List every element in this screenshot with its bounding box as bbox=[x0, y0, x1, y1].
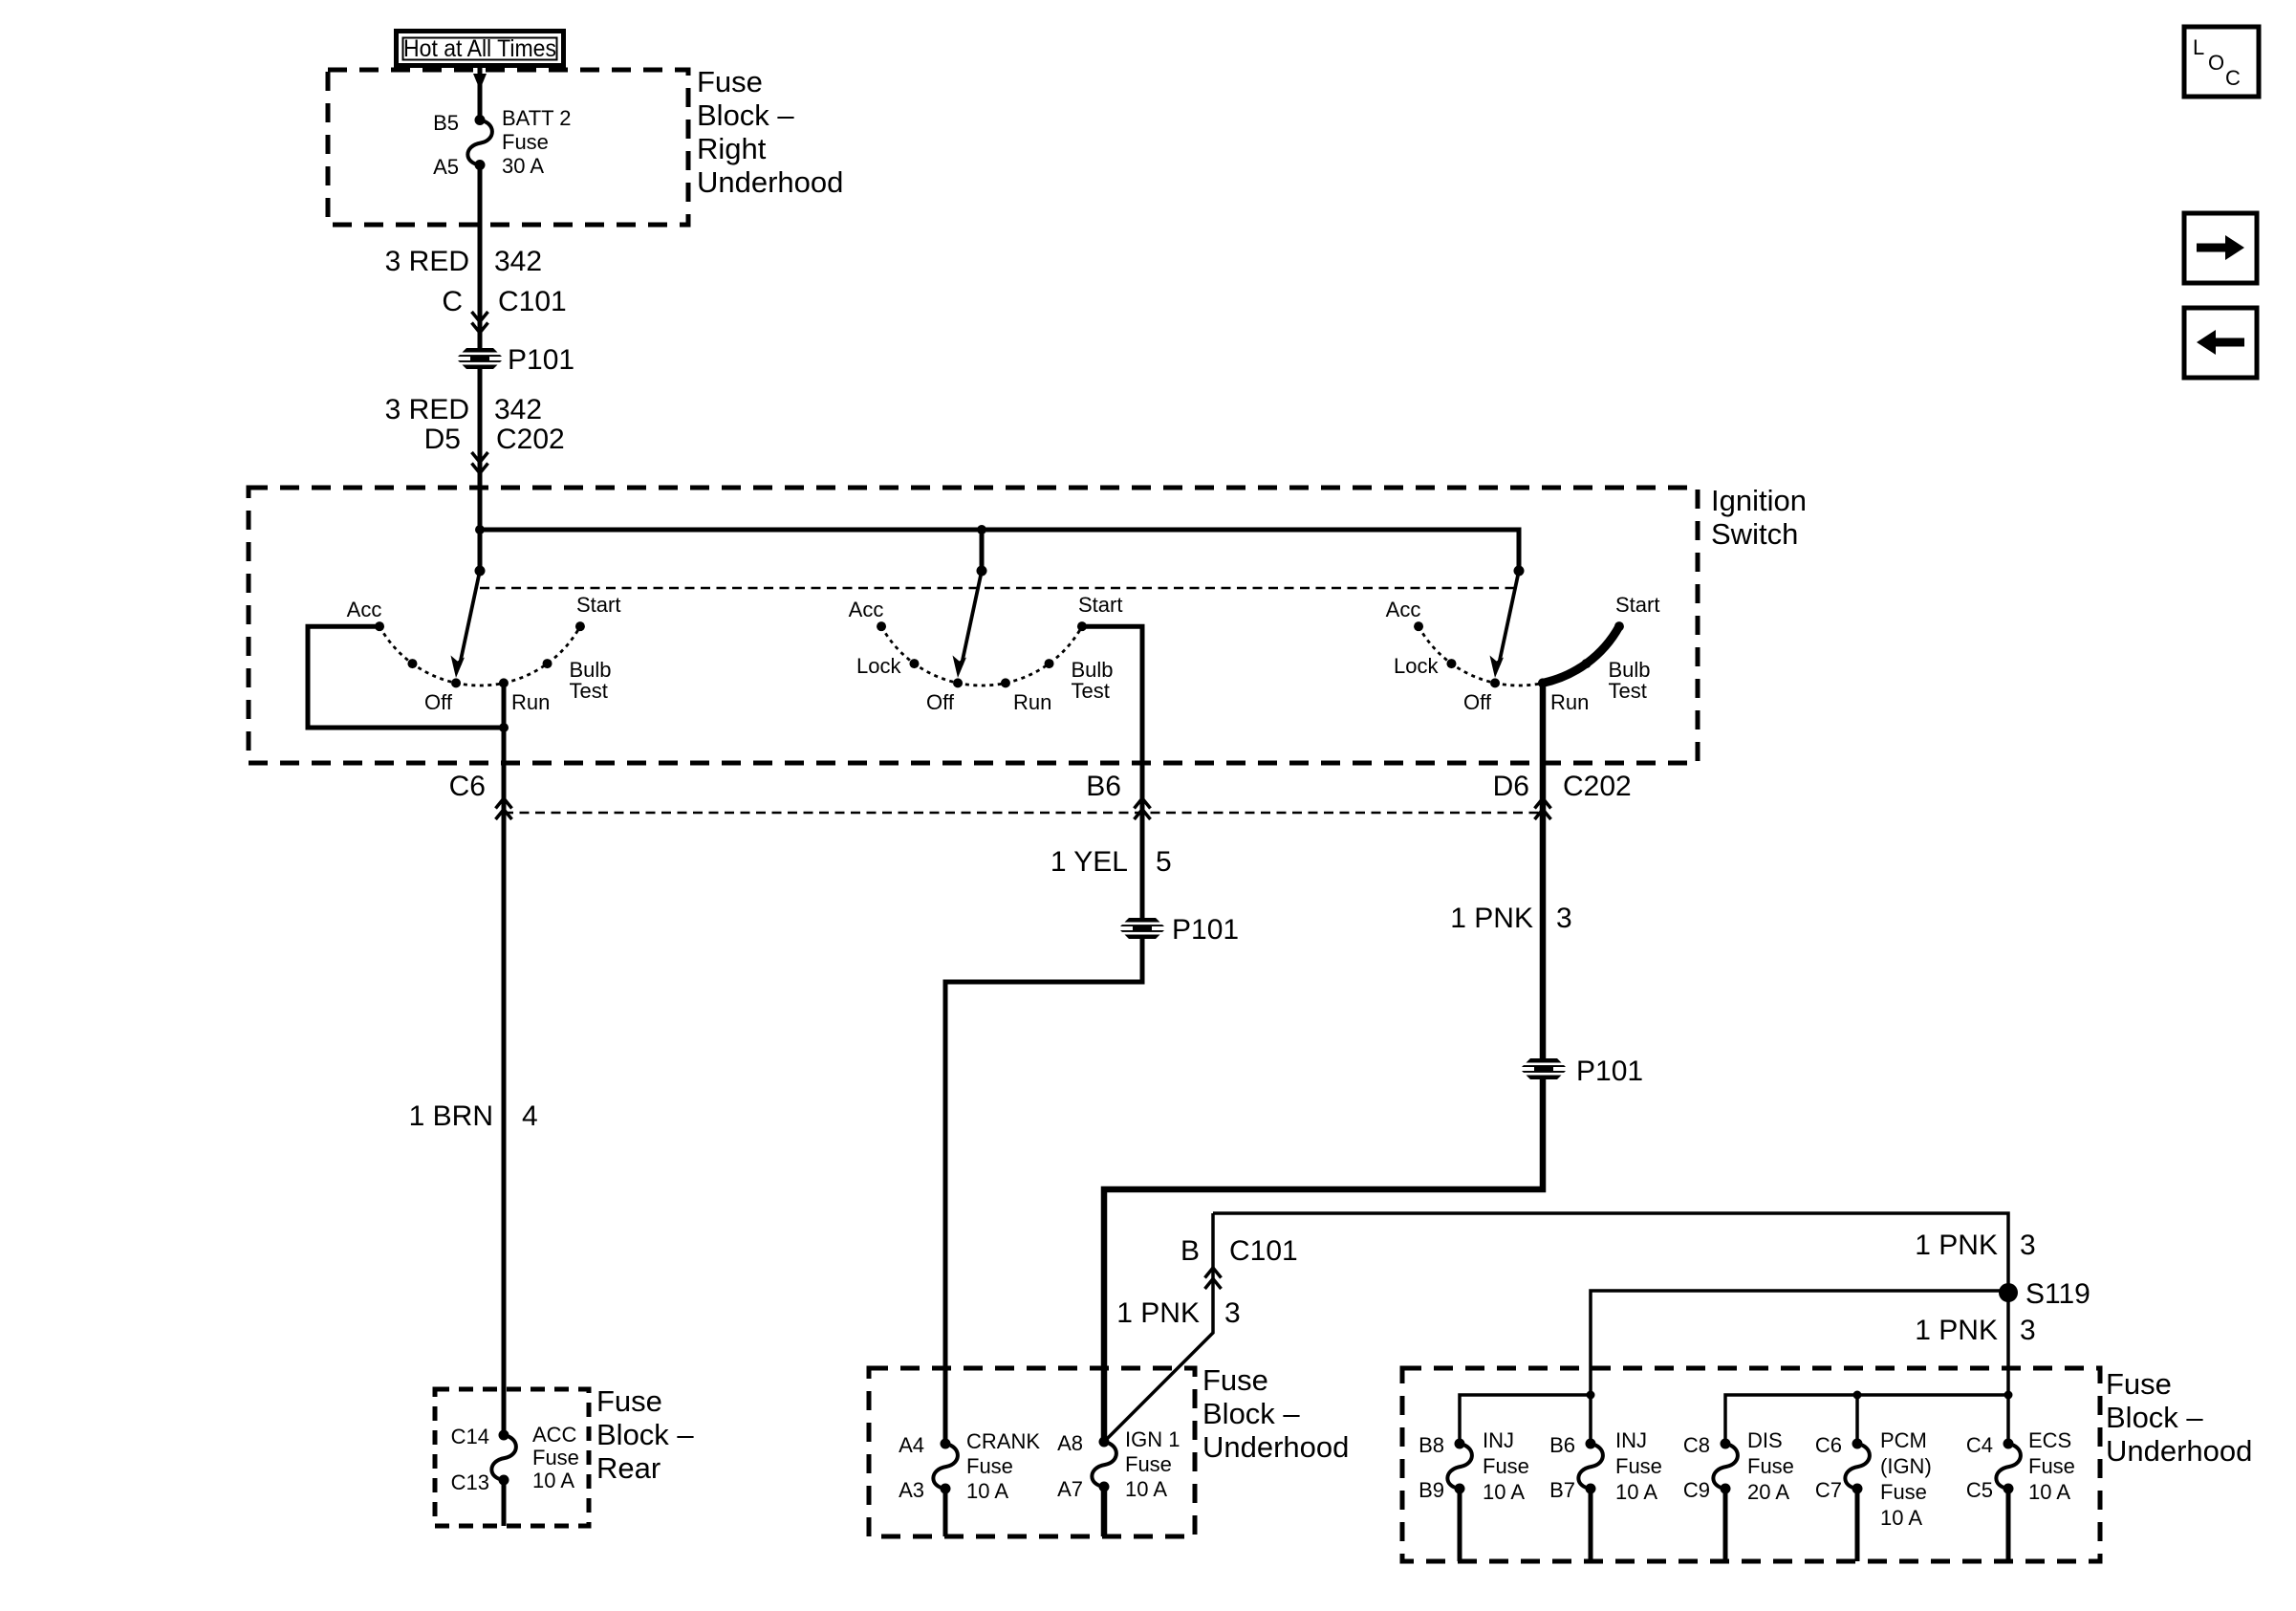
pin C7 label bbox=[1815, 1478, 1842, 1502]
svg-text:Fuse: Fuse bbox=[596, 1384, 662, 1418]
switch section labels at x=1027 bbox=[849, 593, 1123, 714]
svg-text:S119: S119 bbox=[2025, 1278, 2090, 1310]
svg-text:3 RED: 3 RED bbox=[385, 394, 469, 425]
connector C202 dashed boundary inside switch bbox=[480, 587, 1519, 590]
svg-text:1 PNK: 1 PNK bbox=[1450, 903, 1533, 934]
svg-text:3: 3 bbox=[2020, 1315, 2036, 1346]
svg-text:Lock: Lock bbox=[856, 654, 901, 678]
svg-text:Block –: Block – bbox=[697, 98, 794, 132]
svg-text:Fuse: Fuse bbox=[2028, 1454, 2075, 1478]
svg-text:342: 342 bbox=[494, 394, 542, 425]
connector pin C6 bbox=[449, 771, 512, 819]
pin C13 label bbox=[451, 1470, 489, 1494]
svg-text:IGN 1: IGN 1 bbox=[1125, 1427, 1180, 1451]
svg-text:C6: C6 bbox=[1815, 1433, 1842, 1457]
svg-text:ACC: ACC bbox=[532, 1423, 577, 1447]
pin C6 label bbox=[1815, 1433, 1842, 1457]
label: Fuse Block - Right Underhood bbox=[697, 65, 843, 199]
svg-text:Fuse: Fuse bbox=[1483, 1454, 1529, 1478]
fuse ECS Fuse 10 A bbox=[1996, 1439, 2021, 1494]
wire stub below PCM fuse (C7) bbox=[1855, 1489, 1860, 1561]
svg-text:B7: B7 bbox=[1549, 1478, 1575, 1502]
wire: splice branch from IGN1 fuse to connector C101 pin B bbox=[1104, 1213, 1213, 1442]
pin A5 label bbox=[433, 155, 459, 179]
pin B9 label bbox=[1419, 1478, 1444, 1502]
svg-text:342: 342 bbox=[494, 246, 542, 277]
svg-text:Fuse: Fuse bbox=[966, 1454, 1013, 1478]
connector C202 pin D6 bbox=[1493, 771, 1632, 819]
fuse block right underhood dashed box bbox=[328, 70, 688, 225]
fuse IGN 1 Fuse 10 A bbox=[1092, 1437, 1116, 1492]
pin B8 label bbox=[1419, 1433, 1444, 1457]
svg-text:Off: Off bbox=[424, 690, 453, 714]
svg-text:A3: A3 bbox=[899, 1478, 924, 1502]
svg-text:C14: C14 bbox=[451, 1425, 489, 1448]
wire: internal feed bus of ignition switch bbox=[475, 525, 1519, 571]
svg-text:D6: D6 bbox=[1493, 771, 1529, 802]
svg-text:Underhood: Underhood bbox=[1202, 1430, 1349, 1464]
svg-text:3 RED: 3 RED bbox=[385, 246, 469, 277]
svg-text:Block –: Block – bbox=[596, 1418, 694, 1451]
svg-text:C202: C202 bbox=[1563, 771, 1632, 802]
label: Fuse Block - Underhood (right) bbox=[2106, 1367, 2252, 1468]
pass-through grommet P101 (right) bbox=[1520, 1056, 1643, 1087]
svg-text:C: C bbox=[2225, 66, 2241, 90]
svg-text:B8: B8 bbox=[1419, 1433, 1444, 1457]
svg-text:Off: Off bbox=[1463, 690, 1492, 714]
svg-text:A8: A8 bbox=[1057, 1431, 1083, 1455]
splice S119 bbox=[1999, 1278, 2090, 1310]
svg-text:C5: C5 bbox=[1966, 1478, 1993, 1502]
svg-text:B5: B5 bbox=[433, 111, 459, 135]
wire: 3 RED 342 from fuse block to ignition switch bbox=[478, 165, 483, 572]
svg-text:1 PNK: 1 PNK bbox=[1915, 1230, 1998, 1261]
svg-text:B6: B6 bbox=[1086, 771, 1121, 802]
svg-text:10 A: 10 A bbox=[966, 1479, 1008, 1503]
thick wiper contact arc Run to Start (section 3) bbox=[1543, 626, 1619, 683]
wire: long bus from C101 B to splice S119 bbox=[1213, 1213, 2008, 1293]
fuse INJ Fuse 10 A bbox=[1578, 1439, 1603, 1494]
wire label 1 YEL 5 bbox=[1051, 846, 1172, 878]
svg-text:Block –: Block – bbox=[2106, 1401, 2203, 1434]
svg-text:1 PNK: 1 PNK bbox=[1915, 1315, 1998, 1346]
pin A7 label bbox=[1057, 1477, 1083, 1501]
connector pin B6 bbox=[1086, 771, 1150, 819]
wire: bus to DIS C8 / PCM C6 / ECS C4 bbox=[1725, 1391, 2013, 1445]
svg-text:Test: Test bbox=[1609, 679, 1647, 703]
connector C101 pin C bbox=[442, 286, 566, 333]
svg-text:Test: Test bbox=[1072, 679, 1110, 703]
fuse ACC Fuse 10 A bbox=[491, 1430, 516, 1486]
svg-text:10 A: 10 A bbox=[2028, 1480, 2070, 1504]
svg-text:Start: Start bbox=[1615, 593, 1659, 617]
wire label 1 PNK 3 (below C101 B) bbox=[1116, 1297, 1240, 1329]
wire: S119 west branch down to INJ fuse B6 bbox=[1591, 1291, 2008, 1444]
label: INJ Fuse 10 A bbox=[1483, 1428, 1529, 1504]
svg-text:BATT 2: BATT 2 bbox=[502, 106, 572, 130]
label: Ignition Switch bbox=[1711, 484, 1807, 551]
svg-text:P101: P101 bbox=[1576, 1056, 1643, 1087]
svg-text:P101: P101 bbox=[508, 344, 574, 376]
svg-text:L: L bbox=[2193, 35, 2204, 59]
wire label 1 PNK 3 (above S119) bbox=[1915, 1230, 2035, 1261]
svg-text:3: 3 bbox=[2020, 1230, 2036, 1261]
wire label 3 RED 342 (lower) bbox=[385, 394, 542, 425]
ignition switch section 2 (Crank/Ign) bbox=[877, 566, 1087, 688]
fuse block underhood (right) dashed box bbox=[1402, 1368, 2100, 1561]
svg-text:Underhood: Underhood bbox=[2106, 1434, 2252, 1468]
svg-text:10 A: 10 A bbox=[1483, 1480, 1525, 1504]
fuse CRANK Fuse 10 A bbox=[933, 1439, 958, 1494]
svg-text:B9: B9 bbox=[1419, 1478, 1444, 1502]
svg-text:Start: Start bbox=[576, 593, 620, 617]
svg-text:Off: Off bbox=[926, 690, 955, 714]
svg-text:Acc: Acc bbox=[347, 598, 382, 621]
pin C14 label bbox=[451, 1425, 489, 1448]
svg-text:A7: A7 bbox=[1057, 1477, 1083, 1501]
svg-text:3: 3 bbox=[1224, 1297, 1241, 1329]
wire: Start contact to B6 output, down to CRANK fuse A4 bbox=[945, 626, 1142, 1444]
LOC reference icon box bbox=[2184, 27, 2259, 97]
switch section labels at x=502 bbox=[347, 593, 621, 714]
wire label 1 PNK 3 (below S119) bbox=[1915, 1315, 2035, 1346]
pin B6 label bbox=[1549, 1433, 1575, 1457]
wire stub below ECS fuse (C5) bbox=[2006, 1489, 2011, 1561]
svg-text:C8: C8 bbox=[1683, 1433, 1710, 1457]
wire: Run contact to C6 output bbox=[502, 683, 507, 1435]
svg-text:Acc: Acc bbox=[849, 598, 884, 621]
svg-text:INJ: INJ bbox=[1483, 1428, 1514, 1452]
switch section labels at x=1589 bbox=[1386, 593, 1660, 714]
svg-text:Run: Run bbox=[511, 690, 550, 714]
svg-text:Acc: Acc bbox=[1386, 598, 1421, 621]
svg-text:C9: C9 bbox=[1683, 1478, 1710, 1502]
svg-text:DIS: DIS bbox=[1747, 1428, 1783, 1452]
svg-text:Run: Run bbox=[1550, 690, 1589, 714]
svg-text:Fuse: Fuse bbox=[502, 130, 549, 154]
svg-text:1 BRN: 1 BRN bbox=[409, 1100, 493, 1132]
svg-text:5: 5 bbox=[1156, 846, 1172, 878]
svg-text:B6: B6 bbox=[1549, 1433, 1575, 1457]
wire stub below ACC fuse bbox=[502, 1480, 507, 1526]
wire label 3 RED 342 (upper) bbox=[385, 246, 542, 277]
svg-text:Underhood: Underhood bbox=[697, 165, 843, 199]
svg-text:D5: D5 bbox=[424, 424, 461, 455]
ignition switch dashed box bbox=[249, 488, 1698, 763]
svg-text:C101: C101 bbox=[1229, 1235, 1298, 1267]
pin C5 label bbox=[1966, 1478, 1993, 1502]
svg-text:4: 4 bbox=[522, 1100, 538, 1132]
right arrow icon box bbox=[2184, 213, 2257, 283]
wire stub below INJ fuse (B7) bbox=[1589, 1489, 1593, 1561]
svg-text:A5: A5 bbox=[433, 155, 459, 179]
svg-text:Ignition: Ignition bbox=[1711, 484, 1807, 517]
svg-text:10 A: 10 A bbox=[1880, 1506, 1922, 1530]
svg-text:Lock: Lock bbox=[1394, 654, 1439, 678]
svg-text:30 A: 30 A bbox=[502, 154, 544, 178]
svg-text:O: O bbox=[2208, 51, 2224, 75]
svg-text:C7: C7 bbox=[1815, 1478, 1842, 1502]
pin B5 label bbox=[433, 111, 459, 135]
pin B7 label bbox=[1549, 1478, 1575, 1502]
svg-text:1 PNK: 1 PNK bbox=[1116, 1297, 1200, 1329]
svg-text:Hot at All Times: Hot at All Times bbox=[403, 35, 556, 62]
wire: battery feed into fuse block with arrowhead bbox=[473, 65, 487, 120]
svg-text:CRANK: CRANK bbox=[966, 1429, 1040, 1453]
pin C9 label bbox=[1683, 1478, 1710, 1502]
svg-text:C202: C202 bbox=[496, 424, 565, 455]
svg-text:Right: Right bbox=[697, 132, 767, 165]
fuse block underhood (middle) dashed box bbox=[869, 1368, 1195, 1536]
wire: Run contact to D6 output, down to IGN 1 fuse A8 bbox=[1104, 683, 1543, 1442]
label: ACC Fuse 10 A bbox=[532, 1423, 579, 1492]
svg-text:ECS: ECS bbox=[2028, 1428, 2071, 1452]
connector C101 pin B bbox=[1180, 1235, 1298, 1289]
svg-text:Rear: Rear bbox=[596, 1451, 661, 1485]
svg-text:Fuse: Fuse bbox=[2106, 1367, 2172, 1401]
pin A3 label bbox=[899, 1478, 924, 1502]
label: BATT 2 Fuse 30 A bbox=[502, 106, 572, 178]
svg-text:Fuse: Fuse bbox=[1202, 1363, 1268, 1397]
label: INJ Fuse 10 A bbox=[1615, 1428, 1662, 1504]
ignition switch section 1 (Accessory) bbox=[375, 566, 585, 688]
pin C8 label bbox=[1683, 1433, 1710, 1457]
label: Fuse Block - Rear bbox=[596, 1384, 694, 1485]
svg-text:Fuse: Fuse bbox=[1615, 1454, 1662, 1478]
fuse PCM (IGN) Fuse 10 A bbox=[1845, 1439, 1870, 1494]
svg-text:Start: Start bbox=[1078, 593, 1122, 617]
svg-text:10 A: 10 A bbox=[1125, 1477, 1167, 1501]
pin A8 label bbox=[1057, 1431, 1083, 1455]
svg-text:Fuse: Fuse bbox=[1880, 1480, 1927, 1504]
svg-text:C4: C4 bbox=[1966, 1433, 1993, 1457]
wire: Acc contact loop to output (section 1) bbox=[308, 626, 509, 732]
wire: bus to INJ fuse B8 bbox=[1460, 1391, 1595, 1445]
wire stub below INJ fuse (B9) bbox=[1458, 1489, 1462, 1561]
svg-text:10 A: 10 A bbox=[532, 1469, 574, 1492]
wire stub below DIS fuse (C9) bbox=[1723, 1489, 1728, 1561]
fuse INJ Fuse 10 A bbox=[1447, 1439, 1472, 1494]
power feed label box: Hot at All Times bbox=[397, 32, 564, 66]
svg-text:Fuse: Fuse bbox=[1747, 1454, 1794, 1478]
connector C202 dashed boundary below switch bbox=[504, 812, 1539, 815]
label: CRANK Fuse 10 A bbox=[966, 1429, 1040, 1503]
svg-text:Block –: Block – bbox=[1202, 1397, 1300, 1430]
label: PCM (IGN) Fuse 10 A bbox=[1880, 1428, 1932, 1530]
svg-text:10 A: 10 A bbox=[1615, 1480, 1657, 1504]
svg-text:P101: P101 bbox=[1172, 914, 1239, 946]
label: IGN 1 Fuse 10 A bbox=[1125, 1427, 1180, 1501]
svg-text:C6: C6 bbox=[449, 771, 486, 802]
fuse BATT 2 Fuse 30 A bbox=[467, 115, 492, 170]
svg-text:1 YEL: 1 YEL bbox=[1051, 846, 1128, 878]
fuse DIS Fuse 20 A bbox=[1713, 1439, 1738, 1494]
fuse block rear dashed box bbox=[435, 1389, 589, 1526]
pass-through grommet P101 (top) bbox=[456, 344, 574, 376]
svg-text:C13: C13 bbox=[451, 1470, 489, 1494]
ignition switch section 3 (Run) bbox=[1414, 566, 1624, 688]
wire label 1 PNK 3 (right branch) bbox=[1450, 903, 1571, 934]
svg-text:C101: C101 bbox=[498, 286, 567, 317]
svg-text:20 A: 20 A bbox=[1747, 1480, 1789, 1504]
svg-text:PCM: PCM bbox=[1880, 1428, 1927, 1452]
connector C202 pin D5 bbox=[424, 424, 565, 473]
wire label 1 BRN 4 bbox=[409, 1100, 538, 1132]
wire stub below CRANK fuse bbox=[943, 1489, 948, 1536]
svg-text:Switch: Switch bbox=[1711, 517, 1798, 551]
pass-through grommet P101 (middle) bbox=[1118, 914, 1239, 946]
label: Fuse Block - Underhood (middle) bbox=[1202, 1363, 1349, 1464]
wire stub below IGN 1 fuse bbox=[1101, 1487, 1108, 1536]
pin C4 label bbox=[1966, 1433, 1993, 1457]
svg-text:Test: Test bbox=[570, 679, 608, 703]
svg-text:(IGN): (IGN) bbox=[1880, 1454, 1932, 1478]
svg-text:Fuse: Fuse bbox=[697, 65, 763, 98]
label: DIS Fuse 20 A bbox=[1747, 1428, 1794, 1504]
wire: S119 down to ECS fuse C4 bbox=[2006, 1293, 2010, 1444]
svg-text:Fuse: Fuse bbox=[532, 1446, 579, 1469]
svg-text:Run: Run bbox=[1013, 690, 1051, 714]
left arrow icon box bbox=[2184, 308, 2257, 378]
label: ECS Fuse 10 A bbox=[2028, 1428, 2075, 1504]
pin A4 label bbox=[899, 1433, 924, 1457]
svg-text:C: C bbox=[442, 286, 463, 317]
svg-text:Fuse: Fuse bbox=[1125, 1452, 1172, 1476]
svg-text:B: B bbox=[1180, 1235, 1200, 1267]
svg-text:INJ: INJ bbox=[1615, 1428, 1647, 1452]
svg-text:A4: A4 bbox=[899, 1433, 924, 1457]
svg-text:3: 3 bbox=[1556, 903, 1572, 934]
